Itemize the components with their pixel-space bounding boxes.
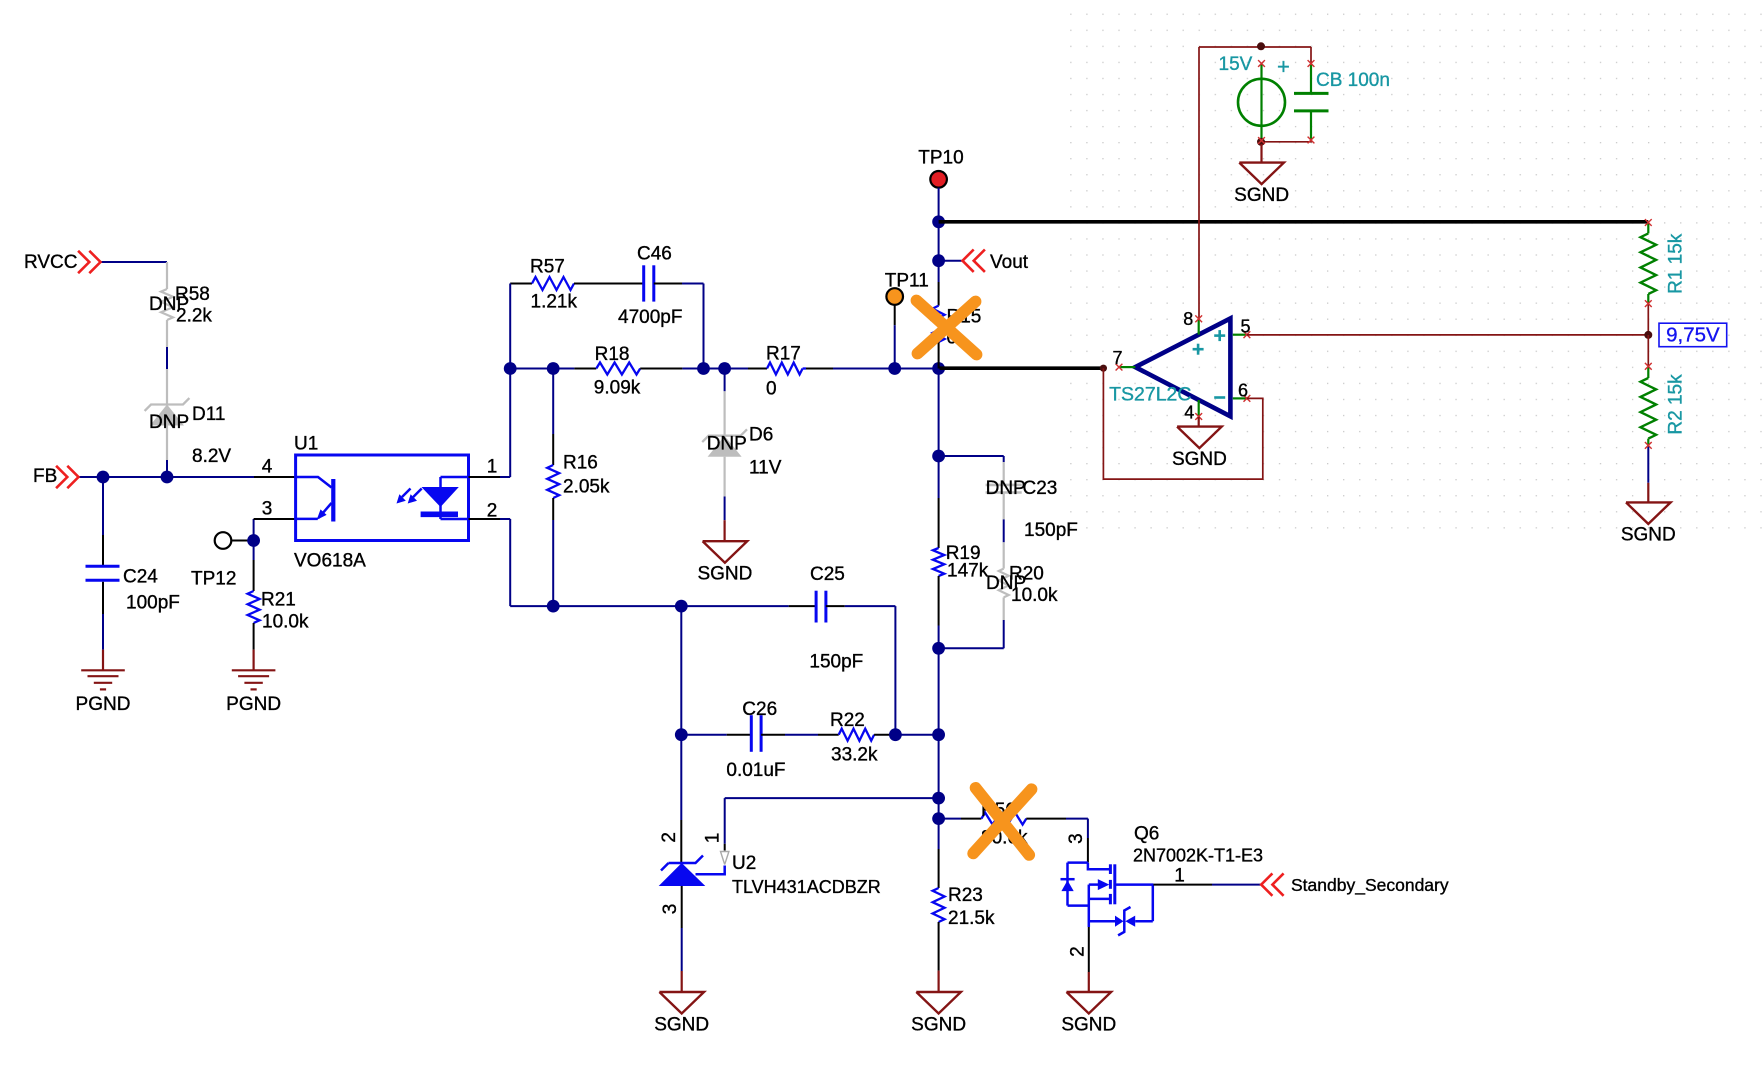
svg-text:CB 100n: CB 100n — [1316, 70, 1390, 91]
svg-text:SGND: SGND — [1061, 1014, 1116, 1035]
svg-text:TP11: TP11 — [885, 271, 929, 292]
svg-text:FB: FB — [33, 466, 57, 487]
svg-text:TP12: TP12 — [191, 569, 236, 590]
svg-text:2N7002K-T1-E3: 2N7002K-T1-E3 — [1133, 846, 1263, 866]
svg-text:C46: C46 — [637, 244, 672, 265]
svg-text:1.21k: 1.21k — [531, 292, 578, 313]
svg-text:R21: R21 — [261, 590, 296, 611]
svg-text:PGND: PGND — [76, 694, 131, 715]
svg-text:C26: C26 — [742, 699, 777, 720]
svg-text:TS27L2C: TS27L2C — [1109, 384, 1191, 406]
svg-text:150pF: 150pF — [809, 651, 863, 672]
svg-text:9.09k: 9.09k — [594, 378, 641, 399]
svg-text:1: 1 — [703, 833, 724, 844]
svg-text:D6: D6 — [749, 425, 773, 446]
svg-text:4: 4 — [262, 457, 273, 478]
svg-text:147k: 147k — [947, 561, 989, 582]
svg-text:10.0k: 10.0k — [262, 612, 309, 633]
svg-text:SGND: SGND — [1172, 449, 1227, 470]
svg-text:R23: R23 — [948, 885, 983, 906]
svg-text:R1 15k: R1 15k — [1665, 233, 1686, 294]
svg-text:2: 2 — [659, 832, 680, 843]
svg-text:SGND: SGND — [1621, 525, 1676, 546]
svg-text:U1: U1 — [294, 434, 318, 455]
svg-text:4700pF: 4700pF — [618, 307, 682, 328]
svg-text:150pF: 150pF — [1024, 520, 1078, 541]
svg-text:0: 0 — [766, 379, 777, 400]
svg-text:R17: R17 — [766, 344, 801, 365]
svg-text:C25: C25 — [810, 564, 845, 585]
svg-text:6: 6 — [1238, 380, 1248, 400]
svg-text:R57: R57 — [530, 257, 565, 278]
svg-text:RVCC: RVCC — [24, 252, 78, 273]
svg-text:DNP: DNP — [707, 434, 747, 455]
svg-text:TLVH431ACDBZR: TLVH431ACDBZR — [732, 877, 881, 897]
svg-text:TP10: TP10 — [918, 148, 963, 169]
svg-text:3: 3 — [1066, 833, 1087, 844]
svg-text:SGND: SGND — [1234, 185, 1289, 206]
svg-text:21.5k: 21.5k — [948, 908, 995, 929]
svg-text:8.2V: 8.2V — [192, 446, 231, 467]
svg-text:+: + — [1277, 54, 1290, 79]
svg-text:7: 7 — [1112, 348, 1122, 368]
svg-text:3: 3 — [660, 904, 681, 915]
svg-text:SGND: SGND — [911, 1014, 966, 1035]
svg-text:SGND: SGND — [697, 564, 752, 585]
svg-text:R22: R22 — [830, 710, 865, 731]
svg-text:33.2k: 33.2k — [831, 745, 878, 766]
svg-text:U2: U2 — [732, 853, 756, 874]
svg-text:15V: 15V — [1219, 54, 1253, 75]
svg-text:1: 1 — [1174, 866, 1185, 887]
svg-text:Vout: Vout — [990, 252, 1029, 273]
svg-text:R58: R58 — [175, 284, 210, 305]
svg-text:Standby_Secondary: Standby_Secondary — [1291, 875, 1449, 896]
svg-text:2: 2 — [1068, 946, 1089, 957]
svg-text:R18: R18 — [595, 344, 630, 365]
svg-text:5: 5 — [1240, 317, 1250, 337]
svg-text:R16: R16 — [563, 453, 598, 474]
svg-text:0.01uF: 0.01uF — [726, 760, 785, 781]
svg-text:100pF: 100pF — [126, 593, 180, 614]
svg-text:3: 3 — [262, 499, 273, 520]
svg-text:R2 15k: R2 15k — [1665, 374, 1686, 435]
svg-text:2.2k: 2.2k — [176, 306, 212, 327]
svg-text:D11: D11 — [192, 404, 225, 425]
svg-text:VO618A: VO618A — [294, 551, 366, 572]
svg-text:C23: C23 — [1023, 478, 1058, 499]
svg-text:C24: C24 — [123, 567, 158, 588]
svg-text:1: 1 — [487, 457, 498, 478]
svg-text:2: 2 — [487, 501, 498, 522]
svg-text:DNP: DNP — [986, 478, 1026, 499]
svg-text:11V: 11V — [749, 458, 782, 479]
svg-text:2.05k: 2.05k — [563, 477, 610, 498]
svg-text:SGND: SGND — [654, 1014, 709, 1035]
svg-text:8: 8 — [1183, 309, 1193, 329]
svg-text:PGND: PGND — [226, 694, 281, 715]
svg-text:4: 4 — [1184, 403, 1194, 423]
svg-text:9,75V: 9,75V — [1666, 324, 1720, 347]
svg-text:Q6: Q6 — [1134, 824, 1159, 845]
svg-text:DNP: DNP — [149, 412, 189, 433]
svg-text:10.0k: 10.0k — [1011, 585, 1058, 606]
